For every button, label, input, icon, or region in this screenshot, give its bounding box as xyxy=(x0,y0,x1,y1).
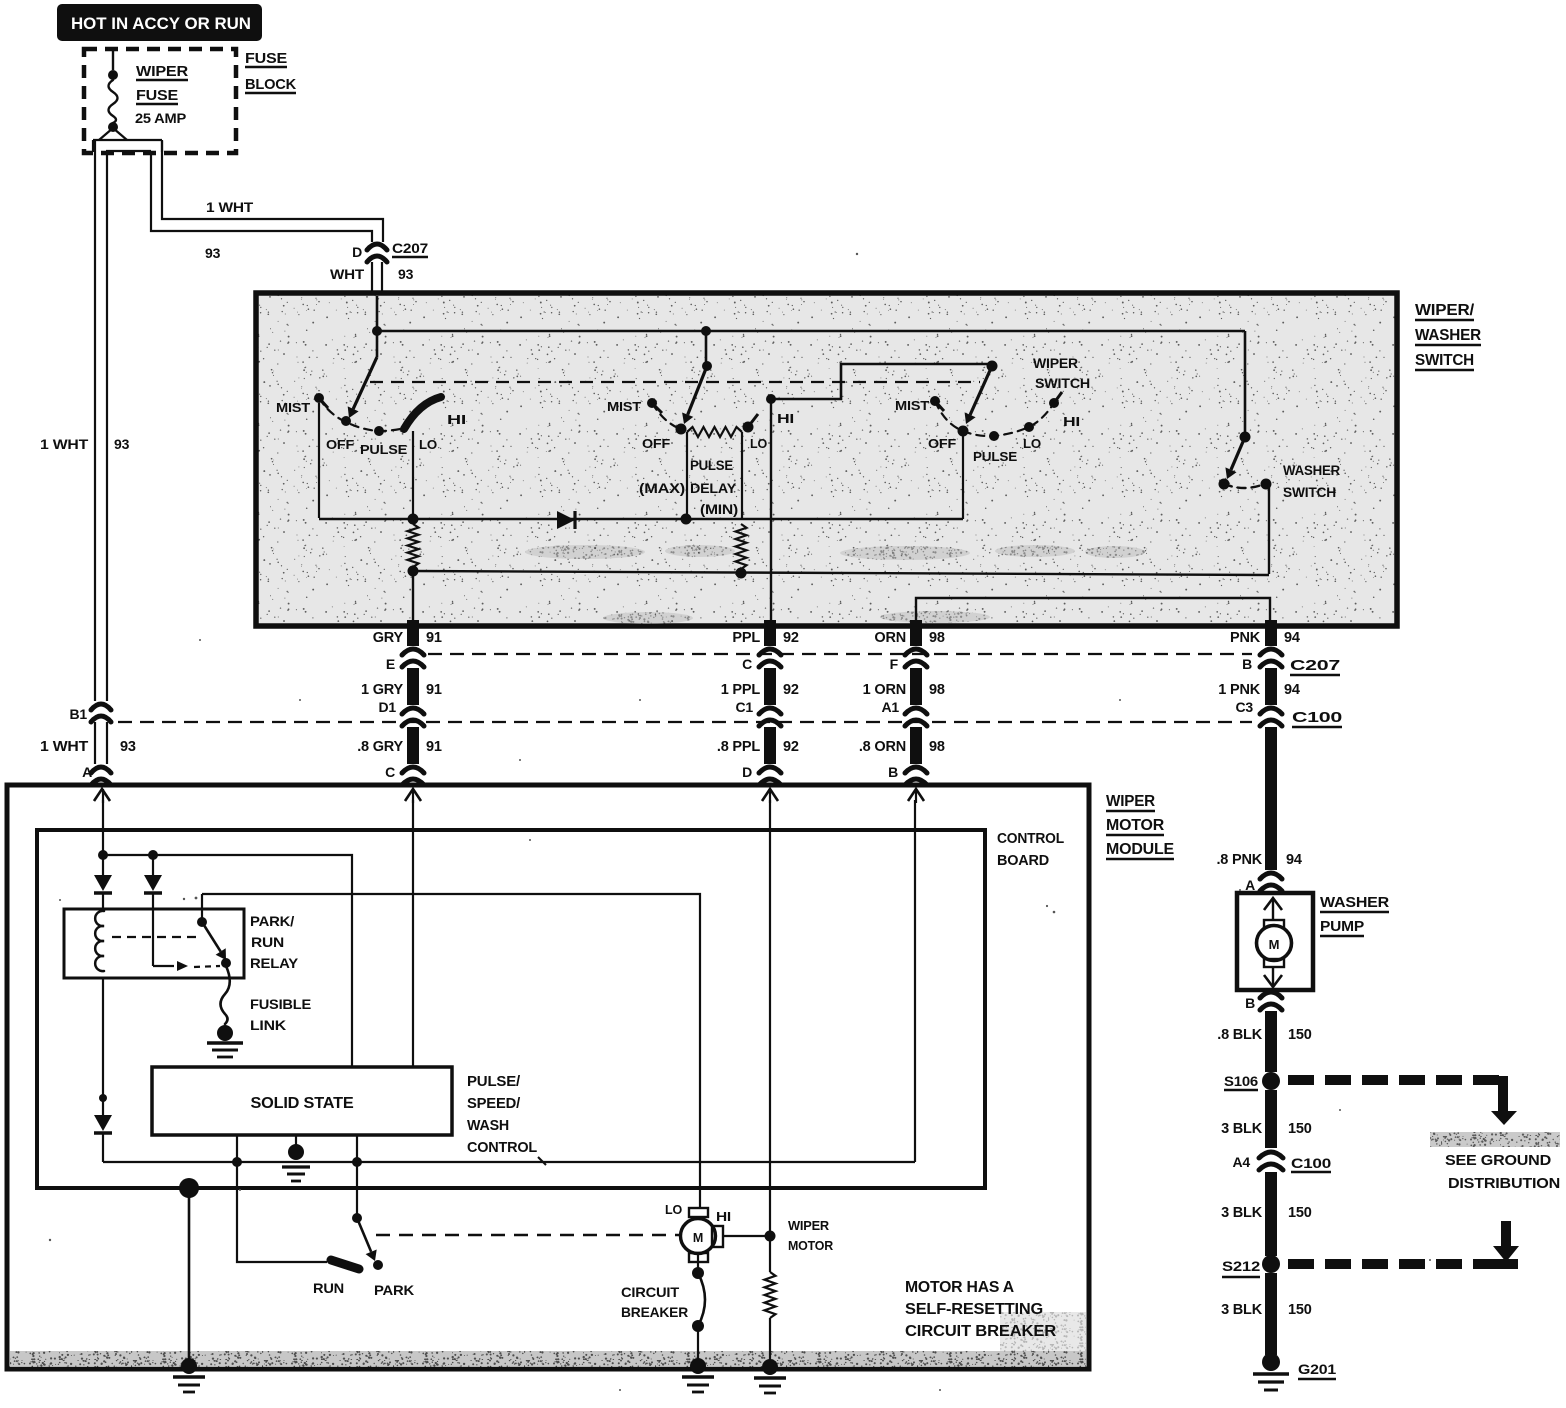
node board ground junction xyxy=(179,1178,199,1198)
label .8 ORN 98 xyxy=(859,739,945,755)
connector module cavity C xyxy=(402,767,424,785)
wire .8 BLK 150 bar xyxy=(1265,1011,1277,1072)
svg-text:1 WHT: 1 WHT xyxy=(206,199,254,215)
resistor R2 pulse delay (variable, top of delay box) xyxy=(687,427,742,437)
svg-text:(MAX): (MAX) xyxy=(639,481,685,496)
svg-text:PPL: PPL xyxy=(732,630,760,646)
wire WHT into module with arrow xyxy=(94,789,110,803)
module bottom speckle band xyxy=(10,1351,1086,1367)
svg-text:94: 94 xyxy=(1286,852,1302,868)
svg-text:A: A xyxy=(82,764,92,780)
svg-text:93: 93 xyxy=(398,266,414,282)
label WIPER MOTOR (at motor) xyxy=(788,1218,834,1253)
dashed mechanical link to wiper motor xyxy=(376,1234,682,1236)
svg-text:OFF: OFF xyxy=(928,436,956,451)
diode CR3 xyxy=(144,855,162,909)
wire ORN into module with arrow xyxy=(908,789,924,803)
wire S106 ground distribution (heavy dashed) xyxy=(1288,1076,1517,1125)
solid state module U1 xyxy=(152,1067,452,1135)
svg-text:FUSE: FUSE xyxy=(136,87,178,104)
connector module cavity D xyxy=(759,767,781,785)
switch S4 left contact xyxy=(1219,479,1230,490)
svg-text:C: C xyxy=(385,764,395,780)
svg-text:C3: C3 xyxy=(1236,699,1254,715)
wire WHT inside module down to junction xyxy=(102,800,104,855)
label WIPER MOTOR MODULE xyxy=(1106,793,1175,859)
svg-text:PARK/: PARK/ xyxy=(250,913,294,929)
switch S2 OFF contact xyxy=(676,424,687,435)
svg-text:SWITCH: SWITCH xyxy=(1283,485,1336,500)
wire 1 WHT 93 below B1 (double line) xyxy=(95,722,107,764)
svg-text:C100: C100 xyxy=(1291,1155,1332,1171)
label WHT 93 (below C207) xyxy=(330,266,414,282)
switch S2 feed drop xyxy=(705,331,708,366)
wire S1 LO to pulse bus xyxy=(412,431,414,518)
wire 1 PNK 94 bar to washer pump xyxy=(1265,727,1277,870)
svg-text:WASHER: WASHER xyxy=(1283,463,1340,478)
wire solid state to RUN contact xyxy=(237,1162,327,1262)
smudge marks inside switch box xyxy=(525,545,1145,624)
wire 1 WHT 93 to C207 (double line) xyxy=(151,141,383,242)
ground G201 xyxy=(1253,1353,1336,1390)
label PPL 92 xyxy=(732,630,798,646)
wire S3 OFF to pulse bus xyxy=(962,434,964,519)
node feed junction at top bus xyxy=(372,326,382,336)
svg-text:SPEED/: SPEED/ xyxy=(467,1095,521,1112)
svg-text:92: 92 xyxy=(783,630,799,646)
svg-text:LO: LO xyxy=(750,436,767,451)
svg-text:1 WHT: 1 WHT xyxy=(40,739,88,755)
svg-text:94: 94 xyxy=(1284,682,1300,698)
wire S212 ground distribution (heavy dashed) xyxy=(1288,1221,1519,1269)
svg-text:150: 150 xyxy=(1288,1302,1312,1318)
svg-text:MOTOR HAS A: MOTOR HAS A xyxy=(905,1279,1014,1296)
svg-text:E: E xyxy=(386,656,395,672)
switch S1 PULSE contact xyxy=(374,426,384,436)
svg-text:F: F xyxy=(890,656,899,672)
label PNK 94 xyxy=(1230,630,1300,646)
svg-text:PULSE/: PULSE/ xyxy=(467,1073,521,1090)
dashed connector line C100 xyxy=(118,721,1252,723)
svg-text:C100: C100 xyxy=(1292,709,1342,726)
svg-text:(MIN): (MIN) xyxy=(700,502,738,517)
svg-text:LO: LO xyxy=(665,1202,682,1217)
svg-text:FUSE: FUSE xyxy=(245,50,287,67)
svg-text:A1: A1 xyxy=(882,699,900,715)
relay K1 lever xyxy=(202,922,226,960)
switch S3 PULSE contact xyxy=(989,431,999,441)
node R1 / washer bus junction xyxy=(408,566,419,577)
wire GRY input to solid state xyxy=(412,800,414,1067)
wire 1 PNK 94 bar xyxy=(1265,668,1277,705)
switch S1 LO-HI heavy arc xyxy=(404,397,441,429)
svg-text:1 ORN: 1 ORN xyxy=(863,682,906,698)
svg-text:MIST: MIST xyxy=(895,398,929,413)
switch S4 washer lever xyxy=(1225,437,1245,479)
svg-text:93: 93 xyxy=(120,739,136,755)
label .8 BLK 150 xyxy=(1217,1027,1311,1043)
label PARK/ RUN RELAY xyxy=(250,913,299,971)
ground G-fusible (relay contact ground) xyxy=(207,1025,243,1057)
connector C100 cavity A1 xyxy=(905,708,927,726)
wire washer bus (horizontal) xyxy=(413,571,1269,575)
svg-text:.8 PPL: .8 PPL xyxy=(717,739,760,755)
node bus / solid state drop 1 xyxy=(232,1135,242,1167)
svg-text:91: 91 xyxy=(426,739,442,755)
connector C100 cavity C1 xyxy=(759,708,781,726)
label 1 GRY 91 xyxy=(361,682,442,698)
switch S1 contact arc (dashed) xyxy=(319,398,400,431)
connector C207 cavity D xyxy=(367,244,387,262)
terminal bar GRY 91 (switch box exit) xyxy=(402,620,424,667)
svg-text:FUSIBLE: FUSIBLE xyxy=(250,996,311,1012)
wire fuse output Y-split and bus xyxy=(93,128,162,152)
wire S1 MIST to pulse bus xyxy=(318,403,320,518)
connector C100 cavity C3 and label C100 xyxy=(1236,699,1343,727)
switch S3 contact arc (dashed) xyxy=(935,401,1054,436)
svg-text:C1: C1 xyxy=(736,699,754,715)
svg-text:1 PNK: 1 PNK xyxy=(1218,682,1260,698)
svg-text:HOT IN ACCY OR RUN: HOT IN ACCY OR RUN xyxy=(71,14,251,33)
label SEE GROUND DISTRIBUTION xyxy=(1445,1152,1560,1192)
switch park/run lever xyxy=(357,1218,377,1261)
wire top feed bus to washer switch xyxy=(377,330,1245,333)
wire module bus (horizontal) xyxy=(103,1161,915,1163)
svg-text:98: 98 xyxy=(929,630,945,646)
svg-text:G201: G201 xyxy=(1298,1361,1336,1377)
label D C207 xyxy=(352,240,428,260)
svg-text:91: 91 xyxy=(426,630,442,646)
connector C100 cavity D1 xyxy=(402,708,424,726)
connector B1 on left feed xyxy=(70,704,112,722)
svg-text:CONTROL: CONTROL xyxy=(467,1139,537,1156)
label .8 GRY 91 xyxy=(357,739,442,755)
wire ORN input to module bus xyxy=(914,800,916,1162)
resistor R3 (below delay box) xyxy=(736,524,747,569)
node S2 pivot xyxy=(702,361,712,371)
switch S3 lever (wiper switch) xyxy=(965,366,992,424)
washer pump P1 xyxy=(1237,893,1313,990)
relay K1 coil xyxy=(95,911,104,971)
washer switch feed drop xyxy=(1244,331,1247,434)
ground G-R4 xyxy=(754,1359,786,1393)
label FUSIBLE LINK xyxy=(250,996,311,1033)
svg-text:.8 PNK: .8 PNK xyxy=(1216,852,1262,868)
wire 3 BLK 150 bar (S106 to C100) xyxy=(1265,1090,1277,1148)
svg-text:MODULE: MODULE xyxy=(1106,841,1175,858)
svg-text:LO: LO xyxy=(1023,436,1041,451)
wire relay coil to module bus xyxy=(102,977,104,1096)
svg-text:98: 98 xyxy=(929,739,945,755)
svg-text:.8 ORN: .8 ORN xyxy=(859,739,906,755)
svg-text:.8 GRY: .8 GRY xyxy=(357,739,403,755)
svg-text:SWITCH: SWITCH xyxy=(1035,376,1090,391)
svg-text:CIRCUIT BREAKER: CIRCUIT BREAKER xyxy=(905,1323,1056,1340)
label PULSE/ SPEED/ WASH CONTROL xyxy=(467,1073,546,1165)
switch S2 lever xyxy=(682,366,707,424)
relay K1 pivot node xyxy=(197,917,207,927)
svg-text:150: 150 xyxy=(1288,1121,1312,1137)
relay K1 park/run relay box xyxy=(64,909,244,978)
wire 1 GRY 91 bar xyxy=(407,668,419,705)
wire washer switch output drop xyxy=(1268,484,1270,574)
svg-text:PULSE: PULSE xyxy=(690,458,733,473)
svg-text:GRY: GRY xyxy=(373,630,404,646)
wire motor HI to PPL node xyxy=(723,1235,768,1237)
svg-text:94: 94 xyxy=(1284,630,1300,646)
label PULSE DELAY (MAX) (MIN) xyxy=(639,458,738,517)
ground G-board (solid state ground) xyxy=(282,1135,310,1181)
svg-text:DISTRIBUTION: DISTRIBUTION xyxy=(1448,1175,1560,1192)
label 3 BLK 150 (upper) xyxy=(1221,1121,1312,1137)
switch S3 MIST contact xyxy=(930,396,944,411)
ground G-motor xyxy=(682,1358,714,1392)
switch PARK contact node xyxy=(373,1260,383,1270)
diode CR1 (on pulse bus) xyxy=(557,511,575,529)
label FUSE BLOCK xyxy=(245,50,296,93)
svg-text:B: B xyxy=(1242,656,1252,672)
svg-text:WHT: WHT xyxy=(330,266,365,282)
wire 3 BLK 150 bar (S212 to G201) xyxy=(1265,1273,1277,1355)
switch park/run pivot node xyxy=(352,1162,362,1223)
switch S3 pivot node xyxy=(987,361,998,372)
svg-text:PNK: PNK xyxy=(1230,630,1261,646)
wire S2 HI to S3 pivot xyxy=(771,364,989,399)
svg-text:93: 93 xyxy=(205,245,221,261)
wire .8 ORN 98 bar xyxy=(910,727,922,764)
svg-text:PULSE: PULSE xyxy=(973,449,1018,464)
svg-text:BOARD: BOARD xyxy=(997,853,1049,869)
wire 1 PPL 92 bar xyxy=(764,668,776,705)
pulse delay box xyxy=(687,432,742,519)
switch S4 contact arc (dashed) xyxy=(1224,484,1264,488)
svg-text:98: 98 xyxy=(929,682,945,698)
svg-text:B: B xyxy=(888,764,898,780)
label 3 BLK 150 (lower) xyxy=(1221,1302,1312,1318)
svg-text:.8 BLK: .8 BLK xyxy=(1217,1027,1262,1043)
svg-text:WASH: WASH xyxy=(467,1117,509,1134)
wire pulse bus (horizontal) xyxy=(319,518,963,520)
svg-text:C207: C207 xyxy=(392,240,428,256)
svg-text:A: A xyxy=(1245,877,1255,893)
svg-text:PUMP: PUMP xyxy=(1320,918,1364,935)
svg-text:WASHER: WASHER xyxy=(1320,894,1389,911)
wire ORN riser and crossover to PNK column xyxy=(916,598,1270,624)
stray scan specks xyxy=(49,253,1431,1391)
node pulse bus / delay box junction xyxy=(681,514,692,525)
svg-text:3 BLK: 3 BLK xyxy=(1221,1302,1263,1318)
svg-text:D1: D1 xyxy=(379,699,397,715)
svg-text:CIRCUIT: CIRCUIT xyxy=(621,1284,680,1300)
svg-text:MIST: MIST xyxy=(276,400,310,415)
svg-text:WIPER: WIPER xyxy=(136,63,188,80)
svg-text:SEE GROUND: SEE GROUND xyxy=(1445,1152,1551,1169)
resistor R4 (motor shunt) xyxy=(765,1236,776,1364)
node R3 / washer bus junction xyxy=(736,568,747,579)
resistor R1 (below S1 LO) xyxy=(408,524,419,567)
svg-text:91: 91 xyxy=(426,682,442,698)
svg-text:PULSE: PULSE xyxy=(360,442,408,457)
svg-text:BREAKER: BREAKER xyxy=(621,1304,688,1320)
label WIPER FUSE 25 AMP xyxy=(135,63,188,126)
svg-text:93: 93 xyxy=(114,436,130,452)
node coil drop blob xyxy=(99,1094,107,1102)
wire 1 ORN 98 bar xyxy=(910,668,922,705)
wiper/washer switch box xyxy=(256,293,1397,626)
switch S3 OFF contact xyxy=(958,426,969,437)
label CIRCUIT BREAKER xyxy=(621,1284,688,1320)
node bus / park switch drop xyxy=(352,1135,362,1167)
splice S212 xyxy=(1222,1255,1280,1277)
diode CR4 xyxy=(94,1098,112,1162)
svg-text:HI: HI xyxy=(1063,414,1080,429)
svg-text:WIPER: WIPER xyxy=(788,1218,830,1233)
label GRY 91 xyxy=(373,630,442,646)
label 3 BLK 150 (middle) xyxy=(1221,1205,1312,1221)
diode CR2 xyxy=(94,855,112,909)
wire PPL input through module xyxy=(769,800,771,1234)
relay K1 moving contact node xyxy=(221,958,231,968)
svg-text:D: D xyxy=(352,244,362,260)
svg-text:RELAY: RELAY xyxy=(250,955,299,971)
connector washer pump cavity A xyxy=(1245,873,1282,893)
switch S2 HI contact xyxy=(766,394,776,404)
svg-text:HI: HI xyxy=(716,1209,731,1224)
label 1 PNK 94 xyxy=(1218,682,1300,698)
svg-text:SWITCH: SWITCH xyxy=(1415,352,1474,369)
svg-text:LINK: LINK xyxy=(250,1017,286,1033)
switch S3 LO contact xyxy=(1024,422,1034,432)
right corner speckle (inside module) xyxy=(1000,1312,1086,1351)
svg-text:B1: B1 xyxy=(70,706,88,722)
svg-text:150: 150 xyxy=(1288,1205,1312,1221)
svg-text:3 BLK: 3 BLK xyxy=(1221,1121,1263,1137)
node WHT junction 1 xyxy=(98,850,108,860)
label WASHER PUMP xyxy=(1320,894,1389,936)
svg-text:WIPER: WIPER xyxy=(1106,793,1156,810)
node motor HI / PPL junction xyxy=(765,1231,776,1242)
svg-text:MOTOR: MOTOR xyxy=(788,1238,834,1253)
relay K1 actuation dashed link xyxy=(112,936,198,938)
label ORN 98 xyxy=(874,630,944,646)
svg-text:OFF: OFF xyxy=(326,437,354,452)
switch S2 contact arc (dashed) xyxy=(652,403,678,428)
circuit breaker CB1 (self-resetting) xyxy=(692,1253,705,1363)
node pulse bus / LO junction xyxy=(408,514,419,525)
svg-text:1 GRY: 1 GRY xyxy=(361,682,404,698)
wire GRY drop to terminal xyxy=(412,571,414,624)
wire 3 BLK 150 bar (C100 to S212) xyxy=(1265,1172,1277,1256)
wire WHT into switch box (double line) xyxy=(372,262,382,292)
label .8 PPL 92 xyxy=(717,739,799,755)
node switch 2 feed tap xyxy=(701,326,711,336)
terminal bar ORN 98 (switch box exit) xyxy=(905,620,927,667)
label 1 WHT 93 (left feed) xyxy=(40,436,130,452)
svg-text:D: D xyxy=(742,764,752,780)
label 1 ORN 98 xyxy=(863,682,945,698)
label 1 PPL 92 xyxy=(721,682,799,698)
label .8 PNK 94 xyxy=(1216,852,1301,868)
svg-text:MIST: MIST xyxy=(607,399,641,414)
splice S106 xyxy=(1224,1072,1280,1090)
switch S3 HI contact xyxy=(1049,392,1062,408)
wire GRY into module with arrow xyxy=(405,789,421,803)
wire 1 WHT 93 left feed (double line) down to B1 xyxy=(95,141,107,701)
svg-text:LO: LO xyxy=(419,437,437,452)
relay K1 fixed contact with arrow xyxy=(153,909,220,971)
label MOTOR HAS A SELF-RESETTING CIRCUIT BREAKER xyxy=(905,1279,1056,1340)
svg-text:SOLID STATE: SOLID STATE xyxy=(251,1095,355,1112)
svg-text:PARK: PARK xyxy=(374,1282,414,1298)
svg-text:150: 150 xyxy=(1288,1027,1312,1043)
svg-text:M: M xyxy=(693,1231,703,1245)
pin B (C207) and label C207 xyxy=(1242,656,1340,675)
control board outline xyxy=(37,830,985,1188)
speckle above SEE GROUND xyxy=(1430,1132,1560,1147)
svg-text:S212: S212 xyxy=(1222,1258,1260,1274)
fuse F1 WIPER FUSE 25 AMP xyxy=(108,49,118,132)
power label HOT IN ACCY OR RUN xyxy=(57,4,262,41)
switch S2 LO contact xyxy=(743,414,759,433)
washer switch pivot node xyxy=(1240,432,1251,443)
switch RUN contact shoe xyxy=(331,1260,359,1269)
terminal bar PPL 92 (switch box exit) xyxy=(759,620,781,667)
label CONTROL BOARD xyxy=(997,831,1064,869)
wiper motor M1 xyxy=(681,1208,724,1262)
connector module cavity A (left feed) xyxy=(82,764,111,785)
label WASHER SWITCH xyxy=(1283,463,1340,500)
svg-text:3 BLK: 3 BLK xyxy=(1221,1205,1263,1221)
wire .8 PPL 92 bar xyxy=(764,727,776,764)
ground G-board-case xyxy=(173,1358,205,1392)
svg-text:S106: S106 xyxy=(1224,1073,1258,1089)
wire relay to wiper motor LO xyxy=(202,894,700,1208)
switch S1 lever (left wiper switch) xyxy=(348,357,377,418)
switch S1 MIST contact xyxy=(314,393,328,408)
connector C100 cavity A4 xyxy=(1233,1152,1332,1172)
label 1 WHT 93 (lower left) xyxy=(40,739,136,755)
svg-text:B: B xyxy=(1245,995,1255,1011)
svg-text:1 PPL: 1 PPL xyxy=(721,682,761,698)
svg-text:BLOCK: BLOCK xyxy=(245,76,296,93)
svg-text:WIPER: WIPER xyxy=(1033,356,1078,371)
svg-text:HI: HI xyxy=(447,412,466,427)
wire mechanical dashed link (switch gangs) xyxy=(370,381,980,383)
svg-text:OFF: OFF xyxy=(642,436,670,451)
wire WHT feed inside switch box xyxy=(376,296,379,357)
wire PPL into module with arrow xyxy=(762,789,778,803)
wire junction bus to solid state riser xyxy=(103,855,352,1067)
svg-text:C: C xyxy=(742,656,752,672)
svg-text:92: 92 xyxy=(783,682,799,698)
svg-text:WASHER: WASHER xyxy=(1415,327,1482,344)
svg-text:92: 92 xyxy=(783,739,799,755)
svg-text:DELAY: DELAY xyxy=(690,481,736,496)
terminal bar PNK 94 (switch box exit) xyxy=(1260,620,1282,667)
connector washer pump cavity B xyxy=(1245,992,1282,1011)
svg-text:A4: A4 xyxy=(1233,1154,1251,1170)
svg-text:M: M xyxy=(1269,937,1280,952)
svg-text:ORN: ORN xyxy=(874,630,906,646)
fuse block outline (dashed) xyxy=(84,49,236,153)
switch S4 right contact xyxy=(1261,479,1272,490)
wire board ground drop xyxy=(188,1190,191,1362)
label WIPER SWITCH xyxy=(1033,356,1090,391)
switch S2 MIST contact xyxy=(647,398,662,413)
svg-text:RUN: RUN xyxy=(251,934,284,950)
label WIPER/WASHER SWITCH (box title) xyxy=(1415,302,1482,370)
wire .8 GRY 91 bar xyxy=(407,727,419,764)
